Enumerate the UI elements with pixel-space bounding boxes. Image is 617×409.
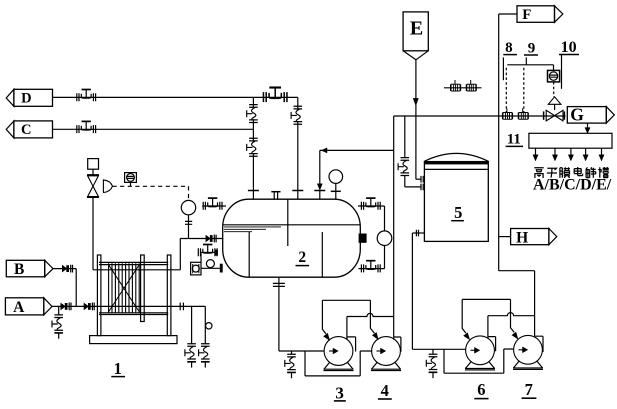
valve on C line bbox=[77, 121, 96, 133]
valve on top manifold bbox=[263, 88, 287, 103]
signal line (dashed) bbox=[113, 186, 189, 200]
wire D line bbox=[53, 96, 298, 98]
frame post middle bbox=[141, 255, 145, 322]
svg-text:F: F bbox=[522, 7, 531, 23]
pump 3 discharge tab bbox=[347, 337, 356, 352]
pump 6 bbox=[465, 336, 495, 370]
suction loop 3/4 bbox=[322, 300, 378, 340]
wire E feed into tank bbox=[416, 178, 421, 180]
nozzle stub 5 with gauge bbox=[329, 170, 343, 200]
signal dashed to control valve bbox=[553, 82, 555, 97]
baffle right bbox=[321, 232, 323, 277]
svg-text:H: H bbox=[516, 229, 528, 246]
flange pair after exchanger bbox=[180, 303, 183, 311]
valve vessel right bottom bbox=[361, 261, 380, 273]
plate pack hatching bbox=[109, 263, 140, 313]
wire riser bbox=[393, 116, 395, 340]
svg-text:8: 8 bbox=[505, 40, 513, 56]
drain on suction 6 bbox=[426, 349, 437, 378]
control valve G bbox=[544, 104, 565, 121]
svg-text:E: E bbox=[410, 17, 423, 39]
signal dashed to meter 1 bbox=[505, 68, 507, 113]
node G flag bbox=[567, 105, 614, 125]
label 3 bbox=[334, 384, 346, 403]
tank 5 body bbox=[424, 153, 488, 241]
control valve body bbox=[87, 169, 99, 197]
label 9 bbox=[524, 40, 538, 56]
nozzle stub 2 (vent) bbox=[271, 192, 280, 200]
wire H branch bbox=[499, 236, 511, 238]
wire branch to vessel top bbox=[320, 149, 394, 151]
wire below instrument circle bbox=[188, 215, 190, 239]
wire discharge header 3/4 bbox=[347, 313, 394, 340]
baffle left bbox=[248, 232, 250, 277]
bypass under pump 6 bbox=[444, 349, 513, 373]
control valve actuator dome bbox=[548, 97, 561, 105]
drain left bbox=[185, 344, 196, 368]
flow arrow on branch bbox=[321, 148, 327, 153]
nozzle stub 1 bbox=[248, 190, 259, 199]
instrument header line bbox=[507, 65, 553, 71]
wire tank to pump 6 suction bbox=[412, 233, 465, 349]
wire D extension drop at x297.8 bbox=[297, 97, 299, 190]
bottom nozzle bbox=[273, 277, 285, 351]
tank suction nozzle bbox=[412, 230, 424, 237]
wire valve branch bbox=[404, 116, 406, 157]
drain right bbox=[199, 344, 210, 368]
meter outlet nozzle (solid) bbox=[220, 264, 223, 273]
wire F riser bbox=[499, 14, 517, 271]
node D flag bbox=[6, 89, 52, 106]
label 6 bbox=[474, 380, 488, 399]
valve vessel right top bbox=[361, 198, 380, 210]
dip tube bbox=[287, 199, 289, 246]
node F flag bbox=[517, 6, 563, 23]
svg-text:D: D bbox=[21, 91, 31, 107]
drain at A line tip bbox=[52, 306, 63, 338]
wire G to cell box bbox=[587, 123, 589, 129]
right gauge loop bbox=[358, 206, 385, 269]
nozzle stub 3 bbox=[292, 190, 303, 199]
check valve A line at exchanger inlet bbox=[84, 303, 94, 311]
instrument circle bbox=[181, 200, 195, 214]
arrow 3 below box bbox=[568, 148, 573, 161]
valve manifold lower bbox=[247, 138, 258, 156]
svg-text:A: A bbox=[13, 299, 25, 316]
node C flag bbox=[6, 121, 52, 138]
valve D extension bbox=[291, 106, 302, 124]
leader 8 bbox=[502, 57, 504, 80]
meter 1 on G line bbox=[503, 108, 513, 119]
valve on D line bbox=[77, 90, 96, 102]
svg-text:1: 1 bbox=[114, 359, 122, 378]
nozzle stub 4 feed with arrow bbox=[314, 150, 325, 199]
svg-text:9: 9 bbox=[528, 40, 536, 56]
svg-text:A/B/C/D/E/: A/B/C/D/E/ bbox=[533, 177, 612, 194]
left top valve line bbox=[202, 205, 226, 207]
gauge circle right bbox=[377, 231, 392, 246]
wire E feed down bbox=[415, 60, 417, 179]
valve vessel left top bbox=[203, 198, 222, 210]
left sample valve line bbox=[201, 252, 215, 262]
valve manifold upper bbox=[247, 105, 258, 123]
label 2 bbox=[296, 249, 310, 266]
label 10 bbox=[559, 39, 579, 56]
check valve B line bbox=[62, 265, 72, 273]
wire vessel to pump 3 suction bbox=[279, 350, 325, 352]
svg-text:10: 10 bbox=[561, 39, 577, 56]
valve vessel left middle bbox=[198, 245, 217, 257]
pump 4 discharge tab bbox=[394, 337, 401, 352]
label 5 bbox=[451, 203, 464, 222]
inline filter pair bbox=[444, 80, 482, 91]
wire pump discharge header bbox=[499, 271, 535, 337]
svg-text:3: 3 bbox=[335, 384, 344, 403]
meter box bbox=[191, 262, 201, 275]
wire valve to tank nozzle 2 bbox=[405, 175, 421, 187]
svg-text:B: B bbox=[14, 261, 24, 278]
wire main pipe bbox=[394, 115, 566, 117]
bypass under pump 3 bbox=[305, 351, 372, 376]
instrument square 10 bbox=[548, 70, 560, 82]
node H flag bbox=[511, 229, 557, 247]
vessel 2 shell bbox=[223, 199, 361, 277]
label 4 bbox=[378, 381, 392, 400]
svg-text:7: 7 bbox=[525, 380, 533, 399]
frame post right bbox=[167, 255, 171, 336]
wire manifold drop at x253 bbox=[252, 97, 254, 190]
check valve A line bbox=[61, 303, 71, 311]
label 8 bbox=[503, 40, 517, 56]
signal dashed to meter 2 bbox=[523, 68, 525, 113]
arrow 1 below box bbox=[533, 148, 538, 161]
drain on suction 3 bbox=[285, 351, 296, 378]
wire control valve outlet down bbox=[92, 198, 94, 270]
tank nozzle 2 flange bbox=[421, 184, 423, 191]
small circle on meter outlet bbox=[206, 260, 214, 268]
node B flag bbox=[6, 260, 53, 278]
cell distribution box 11 bbox=[529, 133, 612, 148]
pump 4 bbox=[371, 337, 401, 371]
pump 3 bbox=[324, 337, 354, 371]
pilot triangle bbox=[103, 180, 112, 193]
svg-text:11: 11 bbox=[507, 132, 521, 148]
leader 9 bbox=[525, 57, 527, 64]
base plate bbox=[90, 336, 177, 344]
svg-text:6: 6 bbox=[477, 380, 485, 399]
wire exchanger outlet to vessel bbox=[93, 239, 223, 270]
arrow into cell box bbox=[585, 128, 590, 134]
left middle nozzle (solid) bbox=[215, 250, 218, 256]
label 7 bbox=[522, 380, 537, 399]
level hatch marks bbox=[224, 227, 281, 232]
valve on tank feed branch bbox=[398, 158, 409, 176]
pump 7 discharge tab bbox=[535, 336, 543, 352]
meter outlet line bbox=[201, 267, 223, 269]
pump 7 bbox=[513, 335, 543, 369]
wire B line bbox=[53, 269, 76, 307]
bottom tie bar bbox=[99, 313, 168, 315]
leader 10 bbox=[561, 55, 563, 89]
svg-text:4: 4 bbox=[381, 381, 389, 400]
arrow 2 below box bbox=[552, 148, 557, 161]
caption ion membrane electrolyzer (stroke glyphs) bbox=[534, 167, 609, 178]
svg-text:C: C bbox=[21, 122, 31, 138]
liquid level line bbox=[223, 224, 360, 226]
svg-text:G: G bbox=[570, 105, 584, 125]
arrow 4 below box bbox=[583, 148, 588, 161]
arrow 5 below box bbox=[599, 148, 604, 161]
wire A line drop to drains bbox=[204, 306, 206, 343]
svg-text:2: 2 bbox=[298, 249, 306, 266]
arrow on E feed bbox=[413, 98, 418, 105]
instrument box on signal line bbox=[125, 173, 137, 187]
pump 6 discharge tab bbox=[488, 337, 496, 352]
right level nozzle (solid) bbox=[359, 234, 367, 243]
frame post left bbox=[97, 255, 101, 336]
top tie bar bbox=[99, 262, 168, 264]
wire drain branch bbox=[191, 306, 193, 343]
plate pack X brace bbox=[108, 264, 139, 312]
actuator square bbox=[88, 159, 99, 170]
flange pair below instrument circle bbox=[185, 221, 192, 224]
wire C line bbox=[53, 128, 254, 130]
wire A line through exchanger bbox=[52, 305, 205, 307]
suction loop 6/7 bbox=[462, 299, 518, 339]
node E hopper bbox=[403, 12, 428, 60]
check valve vessel feed bbox=[206, 235, 216, 243]
label 11 bbox=[506, 132, 523, 148]
wire discharge header 6/7 bbox=[488, 313, 535, 339]
svg-text:5: 5 bbox=[454, 203, 462, 222]
meter 2 on G line bbox=[519, 108, 529, 119]
circle on drop line bbox=[206, 323, 212, 329]
tank nozzle 1 flange bbox=[421, 176, 423, 183]
label 1 bbox=[111, 359, 125, 378]
node A flag bbox=[5, 298, 52, 316]
